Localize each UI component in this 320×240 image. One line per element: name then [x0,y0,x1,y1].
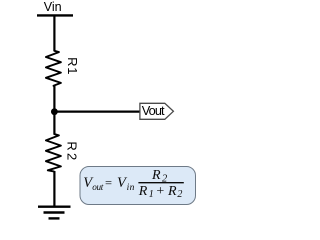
wire Vin bar to R1 top [53,15,55,51]
junction node [51,108,58,115]
svg-text:out: out [92,182,103,192]
resistor R2 [46,134,61,171]
svg-text:+: + [156,184,164,199]
svg-text:R1: R1 [65,57,80,75]
formula box [80,167,196,205]
svg-text:R: R [167,184,177,199]
formula Vout = Vin * R2/(R1+R2) [83,168,184,200]
svg-text:2: 2 [162,173,168,184]
svg-text:R2: R2 [65,141,80,162]
svg-text:Vin: Vin [44,0,62,14]
wire R1 bottom to node [53,85,55,134]
Vin terminal bar [37,14,73,16]
resistor R1 [46,51,61,86]
svg-text:2: 2 [177,189,182,200]
svg-text:=: = [105,176,112,190]
wire R2 bottom to ground [53,171,55,207]
wire node to Vout flag [54,110,140,112]
svg-text:1: 1 [149,189,154,200]
svg-text:R: R [151,168,161,183]
svg-text:in: in [127,183,135,193]
ground [38,207,71,219]
svg-text:R: R [138,184,148,199]
Vout flag [140,103,174,119]
fraction bar [138,182,183,184]
svg-text:Vout: Vout [142,103,165,118]
